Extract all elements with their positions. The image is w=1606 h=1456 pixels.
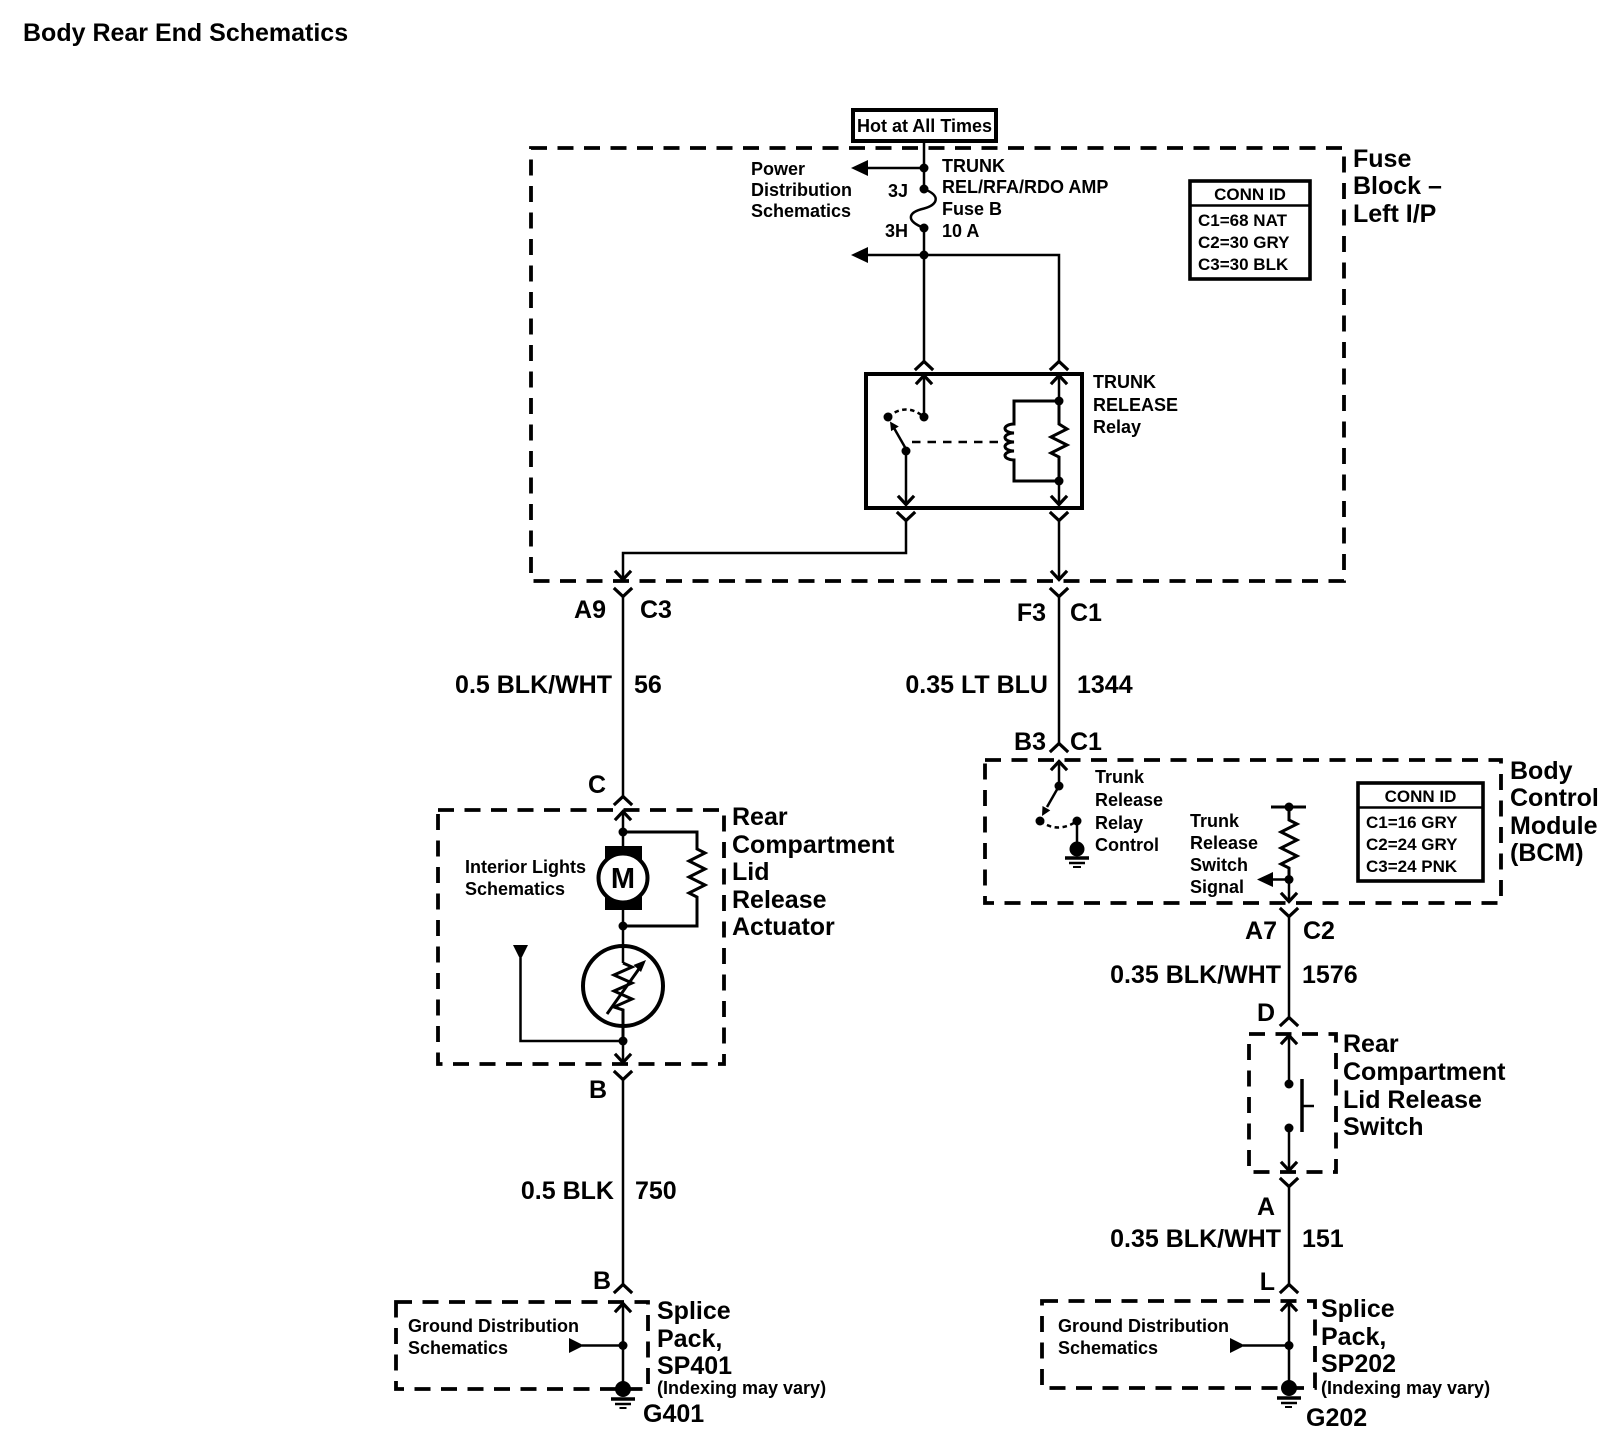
BCM driver contact	[1036, 817, 1045, 826]
connector chevron B3	[1051, 744, 1067, 752]
wire B down	[622, 1080, 625, 1284]
splice pack SP202 dashed box	[1042, 1301, 1315, 1388]
wire relay to A9	[623, 521, 906, 580]
svg-text:CONN ID: CONN ID	[1214, 185, 1286, 204]
wire A9 down	[622, 597, 625, 796]
svg-text:Schematics: Schematics	[465, 879, 565, 899]
fuse block exit arrow A9	[616, 572, 630, 580]
wire from pivot to relay pin 3	[905, 451, 908, 504]
svg-text:Rear: Rear	[732, 803, 788, 831]
svg-text:Compartment: Compartment	[732, 831, 895, 859]
connector chevron below relay pin 4	[1051, 513, 1067, 521]
connector chevron D	[1281, 1018, 1297, 1026]
ground G202	[1277, 1380, 1301, 1407]
thermistor circle	[583, 926, 663, 1041]
Hot at All Times box	[853, 110, 996, 141]
svg-text:Distribution: Distribution	[751, 180, 852, 200]
svg-text:Schematics: Schematics	[1058, 1338, 1158, 1358]
svg-text:Interior Lights: Interior Lights	[465, 857, 586, 877]
BCM pin arrow in	[1052, 762, 1066, 787]
svg-text:151: 151	[1302, 1225, 1344, 1253]
connector chevron A7	[1281, 909, 1297, 917]
connector chevron A	[1281, 1179, 1297, 1187]
actuator shunt resistor	[623, 832, 705, 926]
svg-text:Relay: Relay	[1093, 417, 1141, 437]
svg-text:Left I/P: Left I/P	[1353, 200, 1436, 228]
svg-text:Block –: Block –	[1353, 172, 1442, 200]
svg-text:G202: G202	[1306, 1404, 1367, 1432]
BCM driver armature	[1042, 786, 1059, 816]
relay pin arrow 1	[917, 376, 931, 418]
svg-text:Ground Distribution: Ground Distribution	[1058, 1316, 1229, 1336]
svg-text:Body Rear End Schematics: Body Rear End Schematics	[23, 19, 348, 47]
svg-text:RELEASE: RELEASE	[1093, 395, 1178, 415]
node actuator bottom	[619, 1037, 628, 1046]
svg-text:750: 750	[635, 1177, 677, 1205]
svg-text:3H: 3H	[885, 221, 908, 241]
node junction at power feed 1	[920, 164, 929, 173]
svg-text:0.5 BLK/WHT: 0.5 BLK/WHT	[455, 671, 612, 699]
wire label 0.35 BLK/WHT 1576	[1110, 961, 1357, 989]
svg-text:SP401: SP401	[657, 1352, 732, 1380]
svg-text:F3: F3	[1017, 599, 1046, 627]
svg-text:C1=68 NAT: C1=68 NAT	[1198, 211, 1288, 230]
svg-text:Actuator: Actuator	[732, 913, 835, 941]
svg-text:C3: C3	[640, 596, 672, 624]
relay coil	[1005, 401, 1059, 481]
svg-text:B3: B3	[1014, 728, 1046, 756]
label Power Distribution Schematics	[751, 159, 852, 221]
ground distribution schematics label left	[408, 1316, 579, 1358]
wire A down	[1288, 1187, 1291, 1284]
actuator label	[732, 803, 895, 941]
svg-text:TRUNK: TRUNK	[942, 156, 1005, 176]
switch pin arrow out	[1282, 1163, 1296, 1171]
splice branch arrow left	[569, 1338, 623, 1353]
wire below fuse	[923, 228, 926, 255]
fuse B symbol	[911, 185, 936, 233]
BCM internal ground	[1065, 821, 1089, 867]
wire label 0.35 BLK/WHT 151	[1110, 1225, 1344, 1253]
splice pack SP202 label	[1321, 1295, 1490, 1398]
node actuator mid	[619, 922, 628, 931]
svg-text:A9: A9	[574, 596, 606, 624]
svg-text:Compartment: Compartment	[1343, 1058, 1506, 1086]
wire label 0.35 LT BLU 1344	[905, 671, 1132, 699]
CONN ID table fuse block	[1190, 181, 1310, 279]
wire label 0.5 BLK 750	[521, 1177, 677, 1205]
ground distribution schematics label right	[1058, 1316, 1229, 1358]
svg-text:(BCM): (BCM)	[1510, 839, 1584, 867]
wire from Hot box to fuse	[923, 141, 926, 189]
interior lights branch triangle	[513, 945, 623, 1041]
relay switch armature	[890, 422, 906, 450]
BCM pull-up resistor	[1281, 807, 1297, 880]
svg-text:G401: G401	[643, 1400, 704, 1428]
svg-text:Switch: Switch	[1343, 1113, 1424, 1141]
svg-text:C: C	[588, 771, 606, 799]
connector chevron into relay pin 2	[1051, 362, 1067, 370]
wire to relay switch branch	[923, 255, 926, 361]
splice branch arrow right	[1230, 1338, 1289, 1353]
switch button bar	[1302, 1079, 1314, 1132]
svg-text:(Indexing may vary): (Indexing may vary)	[1321, 1378, 1490, 1398]
svg-text:C2=30 GRY: C2=30 GRY	[1198, 233, 1290, 252]
switch label	[1343, 1030, 1506, 1141]
actuator pin arrow out	[616, 1041, 630, 1063]
relay mechanical link dashed	[912, 441, 1000, 444]
BCM pull-up resistor top bar	[1271, 803, 1306, 812]
node coil bottom	[1055, 477, 1064, 486]
fuse block exit arrow F3	[1052, 572, 1066, 580]
ground G401	[611, 1381, 635, 1408]
relay label	[1093, 372, 1178, 437]
wire label 0.5 BLK/WHT 56	[455, 671, 662, 699]
connector chevron B upper	[615, 1072, 631, 1080]
svg-text:REL/RFA/RDO AMP: REL/RFA/RDO AMP	[942, 177, 1108, 197]
svg-text:B: B	[589, 1076, 607, 1104]
svg-text:Pack,: Pack,	[1321, 1323, 1386, 1351]
svg-text:Body: Body	[1510, 757, 1573, 785]
connector chevron C	[615, 797, 631, 805]
svg-text:Lid Release: Lid Release	[1343, 1086, 1482, 1114]
relay pin arrow 2	[1052, 376, 1066, 402]
BCM driver switch common	[1055, 782, 1064, 791]
connector chevron below relay pin 3	[898, 513, 914, 521]
svg-text:A: A	[1257, 1193, 1275, 1221]
switch pin arrow in	[1282, 1036, 1296, 1085]
relay switch pivot	[902, 447, 911, 456]
motor M1	[599, 846, 648, 910]
wire motor to node	[622, 910, 625, 927]
svg-text:D: D	[1257, 999, 1275, 1027]
switch contact bottom	[1285, 1124, 1294, 1133]
svg-text:A7: A7	[1245, 917, 1277, 945]
svg-text:3J: 3J	[888, 181, 908, 201]
connector label F3 / C1	[1017, 599, 1102, 627]
BCM label	[1510, 757, 1599, 867]
svg-text:56: 56	[634, 671, 662, 699]
node switch signal	[1285, 875, 1294, 884]
svg-text:Splice: Splice	[1321, 1295, 1395, 1323]
node SP401	[619, 1341, 628, 1350]
svg-text:0.35 BLK/WHT: 0.35 BLK/WHT	[1110, 1225, 1281, 1253]
svg-text:SP202: SP202	[1321, 1350, 1396, 1378]
svg-text:Trunk: Trunk	[1095, 767, 1145, 787]
svg-text:Lid: Lid	[732, 858, 770, 886]
svg-text:TRUNK: TRUNK	[1093, 372, 1156, 392]
svg-text:Control: Control	[1095, 835, 1159, 855]
svg-text:Hot at All Times: Hot at All Times	[857, 116, 992, 136]
svg-text:Schematics: Schematics	[408, 1338, 508, 1358]
relay pin arrow 3 (out bottom-left)	[899, 497, 913, 505]
wire coil to relay pin 4	[1058, 481, 1061, 504]
svg-text:Relay: Relay	[1095, 813, 1143, 833]
connector chevron L	[1281, 1285, 1297, 1293]
svg-text:1576: 1576	[1302, 961, 1358, 989]
svg-text:Power: Power	[751, 159, 805, 179]
CONN ID table BCM	[1358, 783, 1483, 881]
node actuator top	[619, 828, 628, 837]
svg-text:CONN ID: CONN ID	[1385, 787, 1457, 806]
connector label A7 / C2	[1245, 917, 1335, 945]
svg-text:Trunk: Trunk	[1190, 811, 1240, 831]
wire F3 down to B3	[1058, 597, 1061, 743]
label trunk release relay control	[1095, 767, 1163, 855]
svg-text:0.35 LT BLU: 0.35 LT BLU	[905, 671, 1048, 699]
node SP202	[1285, 1341, 1294, 1350]
node junction at power feed 2	[920, 251, 929, 260]
svg-text:Control: Control	[1510, 784, 1599, 812]
connector chevron into relay pin 1	[916, 362, 932, 370]
switch signal arrow	[1257, 872, 1289, 887]
actuator pin arrow in	[616, 812, 630, 847]
svg-text:1344: 1344	[1077, 671, 1133, 699]
fuse name label	[942, 156, 1108, 241]
svg-text:C1: C1	[1070, 728, 1102, 756]
relay switch fixed contact	[884, 413, 893, 422]
splice pack SP401 dashed box	[396, 1302, 648, 1389]
svg-text:B: B	[593, 1267, 611, 1295]
switch contact top	[1285, 1080, 1294, 1089]
svg-text:M: M	[611, 863, 635, 895]
BCM pin arrow out A7	[1282, 880, 1296, 903]
splice pack SP401 pin arrow	[616, 1304, 630, 1385]
TRUNK RELEASE relay box	[866, 374, 1082, 508]
svg-text:Fuse B: Fuse B	[942, 199, 1002, 219]
svg-text:Ground Distribution: Ground Distribution	[408, 1316, 579, 1336]
label trunk release switch signal	[1190, 811, 1258, 897]
connector chevron A9	[615, 589, 631, 597]
relay switch throw dashed arc	[888, 410, 924, 418]
svg-text:Signal: Signal	[1190, 877, 1244, 897]
connector chevron F3	[1051, 589, 1067, 597]
relay switch common contact	[920, 413, 929, 422]
BCM internal ground contact	[1073, 817, 1082, 826]
svg-text:Splice: Splice	[657, 1297, 731, 1325]
svg-text:Pack,: Pack,	[657, 1325, 722, 1353]
svg-text:Fuse: Fuse	[1353, 145, 1411, 173]
svg-text:10 A: 10 A	[942, 221, 979, 241]
svg-text:Schematics: Schematics	[751, 201, 851, 221]
svg-text:C3=24 PNK: C3=24 PNK	[1366, 857, 1458, 876]
interior lights schematics label	[465, 857, 586, 899]
BCM driver throw dashed arc	[1040, 821, 1077, 828]
svg-text:(Indexing may vary): (Indexing may vary)	[657, 1378, 826, 1398]
svg-text:C3=30 BLK: C3=30 BLK	[1198, 255, 1289, 274]
svg-text:L: L	[1260, 1268, 1275, 1296]
svg-text:Release: Release	[1190, 833, 1258, 853]
connector label B3 / C1	[1014, 728, 1102, 756]
svg-text:Release: Release	[732, 886, 827, 914]
fuse block dashed box	[531, 148, 1344, 581]
svg-text:C1: C1	[1070, 599, 1102, 627]
svg-text:Rear: Rear	[1343, 1030, 1399, 1058]
splice pack SP401 label	[657, 1297, 826, 1398]
rear compartment lid release switch dashed box	[1249, 1034, 1336, 1172]
wire relay to F3	[1058, 521, 1061, 580]
svg-text:C2=24 GRY: C2=24 GRY	[1366, 835, 1458, 854]
fuse block label	[1353, 145, 1442, 228]
wire to relay coil branch	[924, 255, 1059, 361]
wire switch to pin out	[1288, 1128, 1291, 1170]
connector label A9 / C3	[574, 596, 672, 624]
svg-text:C2: C2	[1303, 917, 1335, 945]
wire A7 down	[1288, 917, 1291, 1017]
relay pin arrow 4 (out bottom-right)	[1052, 497, 1066, 505]
svg-text:0.35 BLK/WHT: 0.35 BLK/WHT	[1110, 961, 1281, 989]
wire arrow to Power Distribution Schematics (bottom)	[851, 247, 924, 263]
svg-text:0.5 BLK: 0.5 BLK	[521, 1177, 614, 1205]
svg-text:Switch: Switch	[1190, 855, 1248, 875]
svg-text:Release: Release	[1095, 790, 1163, 810]
svg-text:C1=16 GRY: C1=16 GRY	[1366, 813, 1458, 832]
relay coil resistor zigzag	[1051, 401, 1067, 481]
node coil top	[1055, 397, 1064, 406]
svg-text:Module: Module	[1510, 812, 1598, 840]
wire arrow to Power Distribution Schematics (top)	[851, 160, 924, 176]
body control module dashed box	[985, 760, 1501, 903]
splice pack SP202 pin arrow	[1282, 1303, 1296, 1384]
connector chevron B lower	[615, 1285, 631, 1293]
rear compartment lid release actuator dashed box	[438, 810, 724, 1064]
